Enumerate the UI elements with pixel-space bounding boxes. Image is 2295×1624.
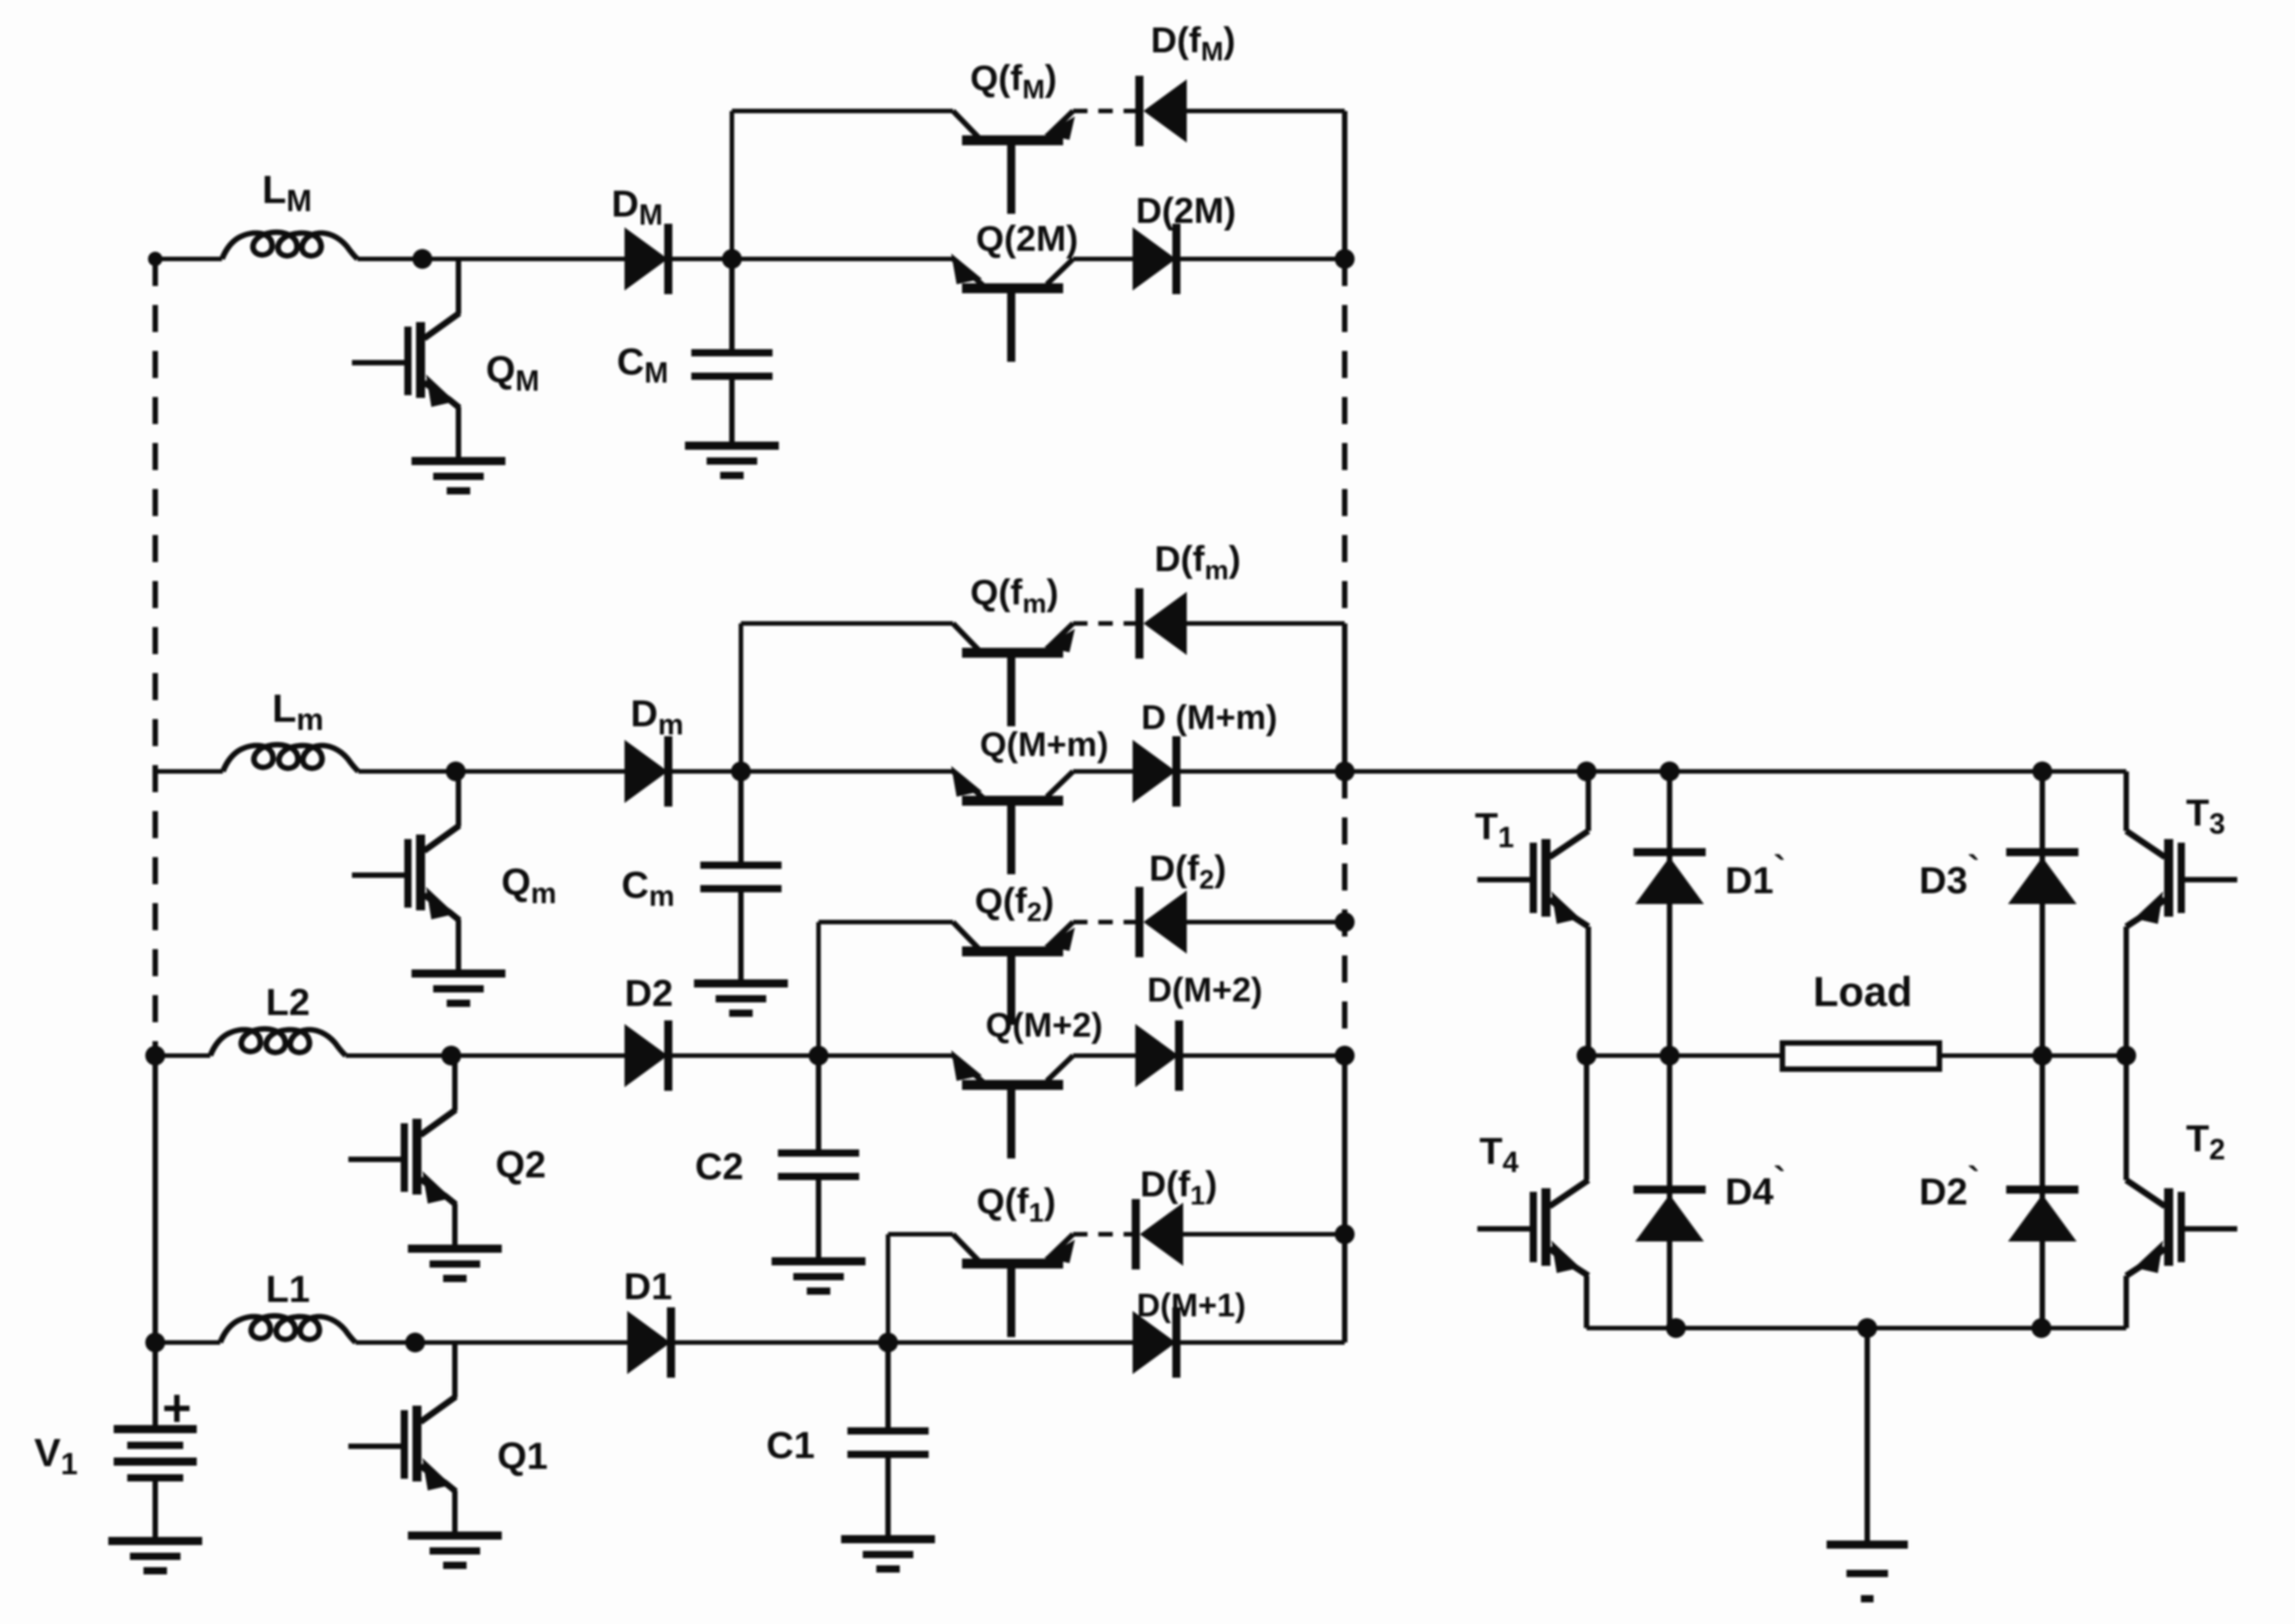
- wire D(M+m) to right bus: [1180, 770, 1345, 774]
- node DM / CM junction: [722, 249, 742, 269]
- wire Q1 collector stub: [452, 1343, 458, 1398]
- inductor L1: [220, 1316, 356, 1343]
- diode D(fm): [1135, 588, 1187, 659]
- wire D(M+1) to right bus corner: [1180, 1341, 1345, 1345]
- wire D4' leg: [1667, 1056, 1672, 1328]
- battery V1: [114, 1429, 197, 1539]
- wire riser to Q(fM) branch: [730, 111, 735, 259]
- diode D1: [627, 1307, 675, 1378]
- svg-text:L2: L2: [265, 981, 310, 1023]
- wire dashed Q(fM) to D(fM): [1073, 109, 1135, 114]
- wire Dm to Cm junction: [672, 770, 741, 774]
- wire Q(M+2) to D(M+2): [1073, 1054, 1135, 1058]
- node right bus at Q(2M) rail: [1335, 249, 1355, 269]
- wire Q(2M) rail segment: [732, 257, 953, 262]
- ground below Cm: [694, 983, 788, 1013]
- node bottom rail ground stem: [1857, 1318, 1877, 1338]
- wire dashed Q(f1) to D(f1): [1073, 1232, 1132, 1237]
- node mid rail D3'/D2' leg: [2032, 1046, 2052, 1066]
- diode D3': [2006, 848, 2078, 904]
- svg-text:Q2: Q2: [495, 1143, 546, 1186]
- wire right bus dashed segment 1: [1342, 259, 1347, 623]
- diode D(M+1): [1133, 1307, 1180, 1378]
- node L1 tap on left bus: [145, 1333, 165, 1352]
- wire D(fM) to right bus corner: [1187, 109, 1345, 114]
- node Dm / Cm junction: [731, 761, 751, 781]
- svg-text:D(2M): D(2M): [1135, 191, 1235, 231]
- diode DM: [625, 224, 672, 294]
- ground below CM: [685, 446, 779, 475]
- wire T1 collector leg: [1586, 771, 1591, 831]
- wire T2 collector leg: [2124, 1056, 2129, 1180]
- svg-text:Q1: Q1: [497, 1435, 548, 1477]
- wire T1 emitter leg: [1586, 927, 1591, 1056]
- wire Q(f1) branch left segment: [888, 1232, 953, 1237]
- ground below inverter: [1827, 1545, 1908, 1599]
- ground below V1: [108, 1541, 202, 1571]
- wire right bus solid bottom segment: [1342, 1056, 1347, 1343]
- wire inverter top rail: [1345, 770, 2126, 774]
- node QM collector tap: [412, 249, 432, 269]
- transistor Q(f1): [953, 1234, 1075, 1337]
- node bottom rail D2' leg: [2031, 1318, 2051, 1338]
- transistor Q(fm): [953, 623, 1075, 726]
- svg-text:Q(M+m): Q(M+m): [980, 726, 1109, 764]
- svg-text:D2: D2: [625, 972, 673, 1014]
- svg-text:Q(M+2): Q(M+2): [986, 1007, 1103, 1045]
- transistor T4: [1477, 1180, 1588, 1276]
- wire inverter bottom rail: [1587, 1326, 2126, 1331]
- node mid rail D1'/D4' leg: [1660, 1046, 1680, 1066]
- wire L2 rail to diode D2: [346, 1054, 625, 1058]
- ground below Qm: [412, 973, 505, 1003]
- wire DM to CM junction: [672, 257, 732, 262]
- diode D(M+m): [1133, 736, 1180, 807]
- wire Q(fM) branch left segment: [732, 109, 953, 114]
- node bottom rail D4' leg: [1666, 1318, 1686, 1338]
- node right bus at output rail: [1335, 761, 1355, 781]
- capacitor CM: [691, 259, 773, 444]
- wire D(f1) to right bus: [1183, 1232, 1345, 1237]
- node Q2 collector tap: [441, 1046, 461, 1066]
- transistor Q(fM): [953, 111, 1075, 214]
- diode D(M+2): [1135, 1020, 1183, 1091]
- wire Q1 emitter stub: [452, 1490, 458, 1534]
- transistor Q(2M): [951, 254, 1073, 362]
- wire D2' leg: [2040, 1056, 2045, 1328]
- node Qm collector tap: [446, 761, 466, 781]
- diode Dm: [625, 736, 672, 807]
- wire T3 emitter leg: [2124, 927, 2129, 1056]
- svg-text:C2: C2: [695, 1145, 744, 1187]
- wire L1 rail left segment: [155, 1341, 220, 1345]
- wire C1 junction to D(M+1): [888, 1341, 1133, 1345]
- battery V1 plus mark: [164, 1395, 190, 1422]
- wire Q(M+2) rail segment: [819, 1054, 953, 1058]
- wire inverter mid rail right: [1939, 1054, 2126, 1058]
- wire ground stem: [1865, 1328, 1870, 1541]
- diode D2: [625, 1020, 672, 1091]
- wire riser to Q(f1) branch: [886, 1234, 891, 1343]
- node right bus at Q(f2) branch: [1335, 912, 1355, 932]
- transistor T1: [1477, 831, 1588, 927]
- svg-text:D(f2): D(f2): [1149, 849, 1226, 895]
- wire T4 collector leg: [1584, 1056, 1589, 1180]
- wire D1' leg: [1667, 771, 1672, 1056]
- wire L2 rail left segment: [155, 1054, 210, 1058]
- capacitor C2: [778, 1056, 859, 1260]
- wire T4 emitter leg: [1584, 1276, 1589, 1328]
- svg-text:D(fM): D(fM): [1151, 21, 1235, 67]
- diode D1': [1633, 848, 1706, 904]
- wire left bus solid lower segment: [153, 1056, 158, 1427]
- svg-text:L1: L1: [265, 1268, 310, 1310]
- transistor QM: [352, 313, 459, 408]
- transistor T3: [2126, 831, 2237, 927]
- capacitor Cm: [700, 771, 782, 982]
- node top rail D3' leg: [2032, 761, 2052, 781]
- wire D(fm) to right bus: [1187, 622, 1345, 626]
- svg-text:D(M+2): D(M+2): [1147, 972, 1263, 1010]
- node Q1 collector tap: [405, 1333, 425, 1352]
- transistor Q2: [348, 1110, 456, 1204]
- node D2 / C2 junction: [809, 1046, 828, 1066]
- svg-text:C1: C1: [766, 1424, 815, 1466]
- load resistor: [1782, 1043, 1939, 1069]
- wire T2 emitter leg: [2124, 1276, 2129, 1328]
- wire Lm rail to diode Dm: [358, 770, 625, 774]
- wire L1 rail to diode D1: [356, 1341, 627, 1345]
- wire Q2 collector stub: [452, 1056, 458, 1111]
- node top rail D1' leg: [1660, 761, 1680, 781]
- node top rail T1 leg: [1577, 761, 1596, 781]
- inductor LM: [222, 233, 357, 260]
- node mid rail T1/T4 leg: [1577, 1046, 1596, 1066]
- wire Q(M+m) rail segment: [741, 770, 953, 774]
- svg-text:D(M+1): D(M+1): [1136, 1287, 1245, 1324]
- transistor Q1: [348, 1397, 456, 1491]
- wire Q(M+m) to D(M+m): [1073, 770, 1133, 774]
- node D1 / C1 junction: [878, 1333, 898, 1352]
- wire D(M+2) to right bus: [1183, 1054, 1345, 1058]
- ground below QM: [412, 461, 505, 491]
- wire D2 to C2 junction: [672, 1054, 819, 1058]
- wire riser to Q(fm) branch: [739, 623, 744, 771]
- diode D2': [2006, 1186, 2078, 1241]
- transistor Q(f2): [953, 922, 1075, 1025]
- wire inverter mid rail left: [1587, 1054, 1782, 1058]
- wire right bus dashed segment 2: [1342, 771, 1347, 1056]
- diode D(fM): [1135, 76, 1187, 146]
- node L2 tap on left bus: [145, 1046, 165, 1066]
- diode D(f1): [1132, 1199, 1183, 1269]
- svg-text:D1: D1: [624, 1265, 672, 1307]
- inductor Lm: [223, 745, 358, 772]
- wire T3 collector leg: [2124, 771, 2129, 831]
- transistor Qm: [352, 826, 459, 920]
- wire LM rail left segment: [155, 257, 222, 262]
- diode D(f2): [1135, 887, 1187, 957]
- ground below Q2: [408, 1249, 502, 1278]
- wire dashed Q(fm) to D(fm): [1073, 622, 1135, 626]
- node LM rail corner on left bus: [148, 252, 162, 266]
- wire riser to Q(f2) branch: [817, 922, 821, 1056]
- capacitor C1: [847, 1343, 929, 1537]
- wire Qm emitter stub: [456, 919, 461, 972]
- wire Lm rail left stub: [155, 770, 223, 774]
- diode D4': [1633, 1186, 1706, 1241]
- wire D(f2) to right bus: [1187, 920, 1345, 925]
- wire D1 to C1 junction: [675, 1341, 888, 1345]
- svg-text:D(f1): D(f1): [1140, 1165, 1217, 1211]
- inductor L2: [210, 1029, 346, 1057]
- wire right bus solid top segment: [1342, 111, 1347, 259]
- wire Q2 emitter stub: [452, 1204, 458, 1247]
- wire Q(f2) branch left segment: [819, 920, 953, 925]
- ground below Q1: [408, 1536, 502, 1565]
- ground below C2: [772, 1261, 865, 1291]
- wire QM emitter stub: [456, 407, 461, 459]
- svg-text:Q(f1): Q(f1): [976, 1182, 1056, 1228]
- diode D(2M): [1133, 224, 1180, 294]
- node mid rail T3/T2 leg: [2116, 1046, 2136, 1066]
- transistor Q(M+2): [951, 1050, 1073, 1158]
- wire QM collector stub: [456, 259, 461, 314]
- svg-text:D (M+m): D (M+m): [1142, 699, 1278, 737]
- svg-text:Q(f2): Q(f2): [975, 881, 1054, 927]
- transistor T2: [2126, 1180, 2237, 1276]
- node right bus at Q(f1) branch: [1335, 1224, 1355, 1244]
- wire right bus solid segment 2: [1342, 623, 1347, 771]
- wire D(2M) to right bus: [1180, 257, 1345, 262]
- wire Q(fm) branch left segment: [741, 622, 953, 626]
- wire dashed Q(f2) to D(f2): [1073, 920, 1135, 925]
- wire D3' leg: [2040, 771, 2045, 1056]
- wire Qm collector stub: [456, 771, 461, 826]
- svg-text:Load: Load: [1813, 968, 1912, 1015]
- ground below C1: [841, 1539, 935, 1569]
- wire left dashed bus (V1 positive rail riser): [153, 259, 158, 1056]
- wire Q(2M) to D(2M): [1073, 257, 1133, 262]
- transistor Q(M+m): [951, 766, 1073, 874]
- svg-text:Q(2M): Q(2M): [976, 219, 1078, 259]
- node right bus at L2 rail: [1335, 1046, 1355, 1066]
- wire LM rail to diode DM: [357, 257, 625, 262]
